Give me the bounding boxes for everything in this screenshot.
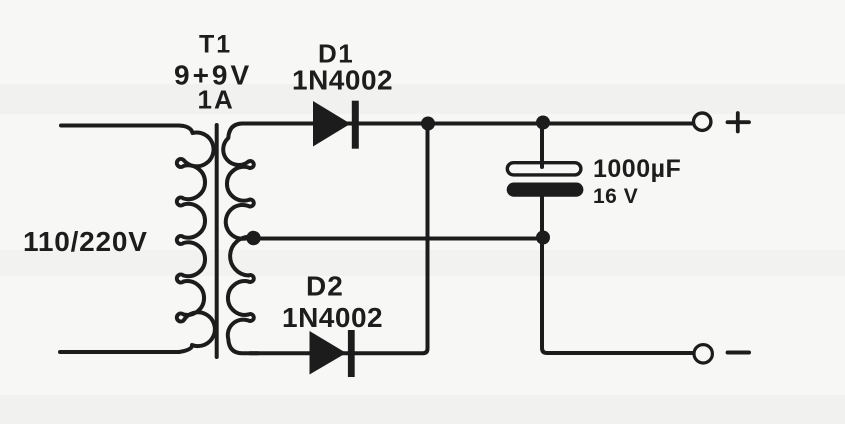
diode D2	[310, 330, 355, 377]
svg-text:1A: 1A	[198, 85, 235, 115]
minus sign	[728, 351, 749, 355]
node cap top junction dot	[536, 116, 550, 130]
svg-text:1N4002: 1N4002	[282, 302, 383, 333]
minus output terminal	[694, 345, 712, 363]
svg-text:1000µF: 1000µF	[593, 155, 681, 183]
wire primary bottom	[60, 350, 179, 354]
svg-text:16 V: 16 V	[593, 185, 638, 208]
plus sign	[728, 113, 750, 132]
svg-text:D2: D2	[306, 271, 344, 302]
node A junction dot	[421, 117, 435, 131]
node center tap junction dot	[246, 231, 260, 245]
capacitor C1 plates	[507, 163, 584, 197]
transformer T1 secondary winding	[223, 124, 258, 354]
plus output terminal	[694, 113, 711, 130]
transformer core	[215, 125, 219, 357]
svg-text:T1: T1	[199, 31, 232, 59]
svg-text:1N4002: 1N4002	[292, 65, 393, 96]
wire primary top	[61, 124, 179, 128]
svg-text:110/220V: 110/220V	[23, 226, 148, 257]
node cap bottom junction dot	[536, 231, 550, 245]
diode D1	[313, 101, 359, 149]
transformer T1 primary winding	[177, 126, 215, 353]
wire center tap	[252, 237, 543, 241]
wire D2 output up to node A	[250, 124, 428, 354]
capacitor C1 bottom lead and wire to minus terminal	[542, 194, 693, 353]
capacitor C1 top lead	[540, 124, 544, 168]
wire secondary top to plus terminal	[243, 122, 692, 126]
